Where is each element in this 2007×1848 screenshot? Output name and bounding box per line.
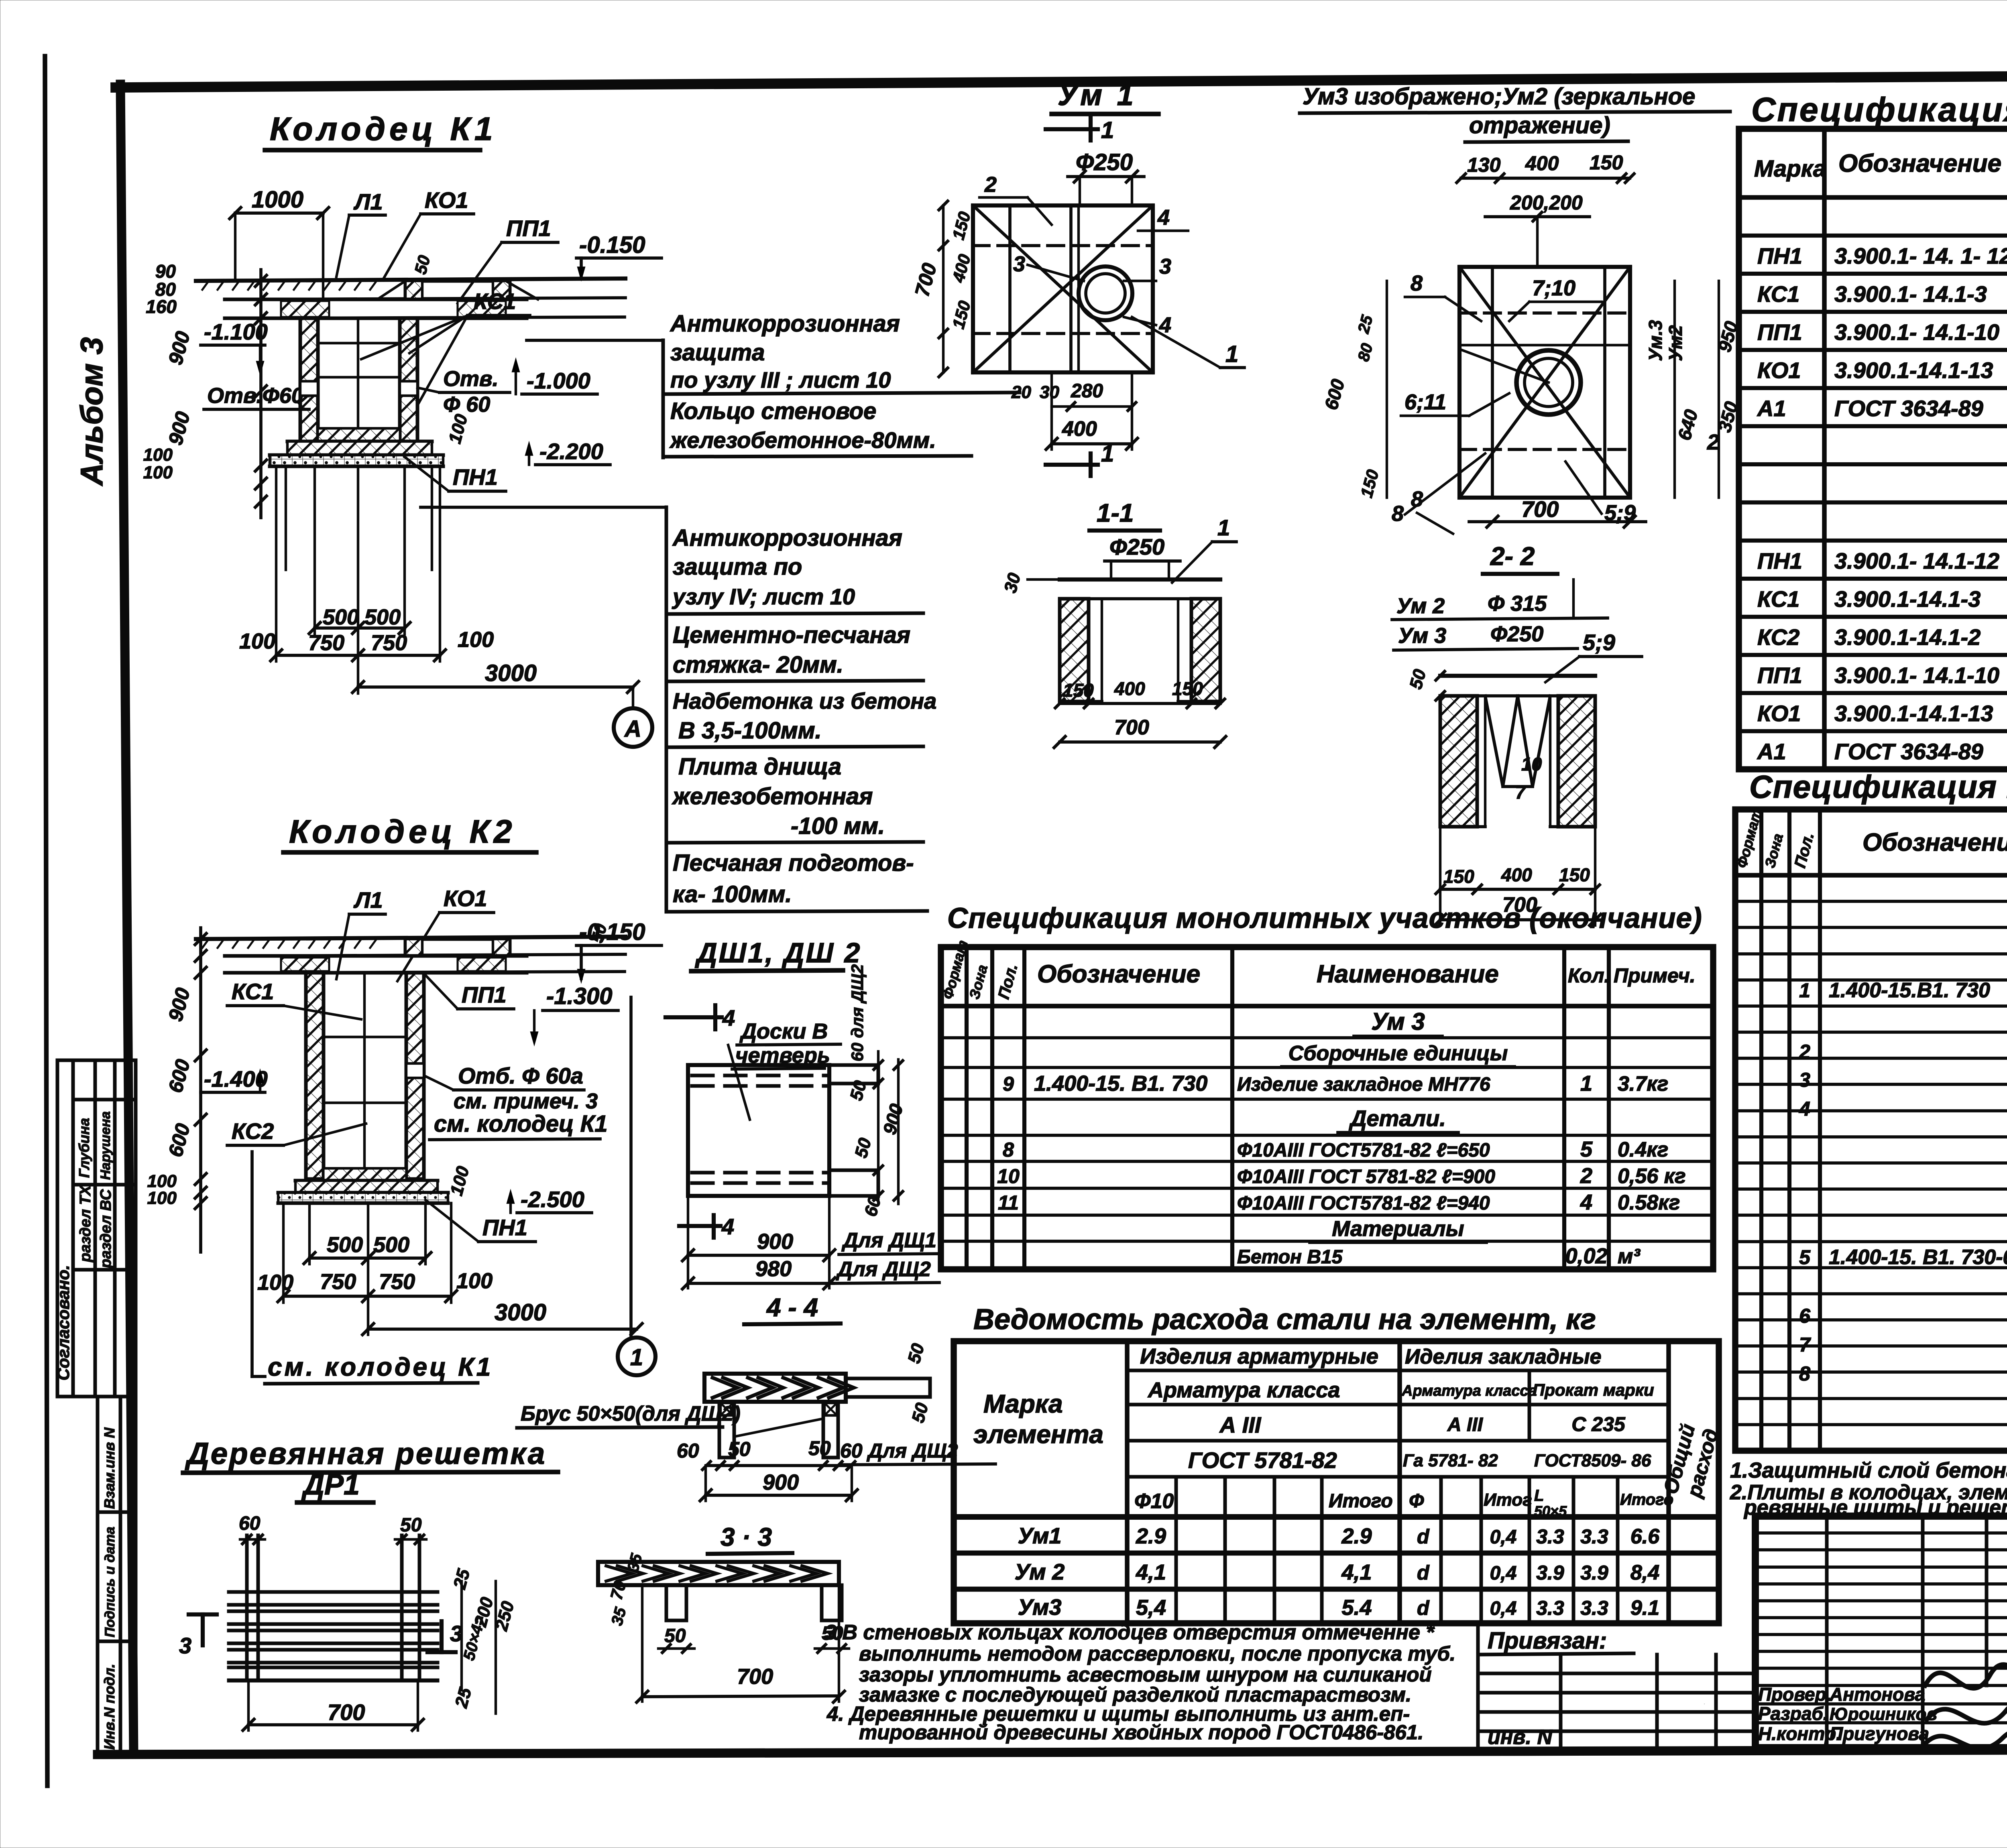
dim 1000 (K1 top) [230, 187, 329, 300]
svg-text:0,4: 0,4 [1490, 1598, 1517, 1619]
svg-text:Обозначение: Обозначение [1037, 960, 1200, 988]
svg-text:Брус 50×50(для ДЩ2): Брус 50×50(для ДЩ2) [521, 1402, 741, 1425]
callout КС1 (K2) [227, 979, 361, 1019]
svg-text:7: 7 [1799, 1334, 1811, 1356]
svg-text:9.1: 9.1 [1630, 1596, 1659, 1620]
svg-text:2.9: 2.9 [1136, 1524, 1166, 1548]
svg-text:Детали.: Детали. [1349, 1106, 1446, 1131]
node marker 1 (circle, K2) [618, 997, 655, 1375]
svg-text:1.400-15.В1. 730: 1.400-15.В1. 730 [1829, 979, 1990, 1002]
svg-text:узлу IV; лист 10: узлу IV; лист 10 [672, 584, 855, 609]
callout ПН1 (K1) [405, 457, 506, 491]
K2 bottom dims 500/500, 750/750, 100, 3000 [257, 1203, 642, 1335]
level -1.100 [201, 319, 268, 375]
svg-text:КС1: КС1 [1757, 281, 1799, 307]
svg-text:1: 1 [630, 1344, 643, 1370]
title 1-1 [1089, 498, 1160, 531]
title 4-4 [0, 0, 0, 0]
svg-text:0.58кг: 0.58кг [1618, 1191, 1680, 1214]
svg-text:11: 11 [998, 1191, 1019, 1214]
table A row А1 (К2) [1757, 739, 2007, 764]
svg-text:Колодец К2: Колодец К2 [289, 813, 516, 850]
svg-text:по узлу III ; лист 10: по узлу III ; лист 10 [670, 367, 891, 392]
svg-text:Обозначение: Обозначение [1838, 150, 2001, 177]
table A row ПП1 [1757, 319, 2007, 345]
svg-text:ГОСТ 3634-89: ГОСТ 3634-89 [1834, 739, 1983, 764]
table C header texts [939, 938, 1696, 1001]
K2 shaft walls [306, 973, 424, 1179]
svg-text:4,1: 4,1 [1341, 1560, 1372, 1584]
svg-text:100: 100 [257, 1271, 293, 1295]
svg-text:980: 980 [755, 1257, 792, 1281]
svg-text:стяжка- 20мм.: стяжка- 20мм. [673, 652, 843, 678]
section 2-2 dims [1435, 827, 1601, 925]
svg-text:3.900.1- 14.1-10: 3.900.1- 14.1-10 [1834, 319, 1999, 345]
callout ПП1 [458, 215, 558, 303]
привязан attachment table [1478, 1626, 1755, 1750]
svg-text:Наименование: Наименование [1317, 960, 1499, 988]
svg-text:7;10: 7;10 [1532, 276, 1575, 300]
svg-text:ГОСТ 5781-82: ГОСТ 5781-82 [1188, 1447, 1337, 1473]
svg-text:3.9: 3.9 [1580, 1561, 1608, 1584]
table D header texts [973, 1344, 1722, 1519]
plan Ум1 [973, 205, 1153, 372]
K2 chamber floor and bottom slab [278, 1169, 448, 1203]
section mark 1 (top) [1046, 117, 1114, 143]
svg-text:3000: 3000 [495, 1299, 546, 1326]
svg-text:100: 100 [143, 463, 173, 482]
plan Ум2/Ум3 labels [1392, 271, 1636, 526]
svg-text:3.3: 3.3 [1580, 1597, 1608, 1619]
leader line to notes box 2 [421, 506, 666, 509]
svg-text:А1: А1 [1757, 396, 1786, 421]
svg-text:2: 2 [984, 173, 997, 197]
svg-text:500: 500 [373, 1233, 409, 1257]
Ум1 bottom dims 20 30 280 400 [1011, 372, 1138, 449]
svg-text:ПН1: ПН1 [1757, 243, 1802, 268]
level mark -0.150 (K1) [576, 232, 662, 281]
callout Л1 [336, 189, 385, 277]
svg-text:железобетонное-80мм.: железобетонное-80мм. [669, 427, 936, 453]
svg-text:6.6: 6.6 [1630, 1525, 1660, 1548]
sheet outer left trim line [45, 56, 47, 1786]
svg-text:3.В стеновых кольцах колодцев: 3.В стеновых кольцах колодцев отверстия … [825, 1621, 1435, 1644]
svg-text:2: 2 [1799, 1041, 1810, 1063]
svg-text:4,1: 4,1 [1136, 1560, 1166, 1584]
svg-text:3: 3 [1013, 252, 1025, 276]
svg-text:КО1: КО1 [444, 886, 487, 911]
2-2 callouts Ум2 Ф315 / Ум3 Ф250 / 5;9 [1392, 579, 1642, 682]
notes box: антикоррозионная защита по узлу III [663, 311, 1020, 457]
svg-text:Плита днища: Плита днища [678, 754, 841, 780]
svg-text:Кол.: Кол. [1568, 964, 1610, 987]
level -1.400 (K2) [201, 1066, 268, 1092]
svg-text:Песчаная подготов-: Песчаная подготов- [673, 850, 914, 876]
svg-text:ДР1: ДР1 [301, 1469, 360, 1501]
svg-text:Деревянная решетка: Деревянная решетка [185, 1437, 546, 1471]
svg-text:ПП1: ПП1 [1757, 663, 1802, 688]
svg-text:Ведомость расхода стали на эл: Ведомость расхода стали на элемент, кг [973, 1303, 1596, 1336]
svg-text:Отб. Ф 60а: Отб. Ф 60а [458, 1063, 583, 1088]
svg-text:раздел ТХ: раздел ТХ [77, 1184, 94, 1262]
svg-text:500: 500 [323, 605, 359, 629]
table B row 1 [1799, 978, 2007, 1002]
title block left grid [1704, 1516, 2007, 1748]
callout КО1 (K2) [397, 886, 494, 981]
svg-text:100: 100 [143, 445, 173, 465]
svg-text:Арматура класса: Арматура класса [1147, 1378, 1340, 1402]
left stamp column (взам.инв/подпись/инв N) [98, 1397, 136, 1753]
svg-text:2: 2 [1707, 430, 1719, 454]
table спецификация монолитных участков (начало): grid [1735, 809, 2007, 1451]
text см.колодец К1 (bottom) [252, 1152, 493, 1384]
svg-text:Доски В: Доски В [739, 1019, 828, 1043]
svg-text:4 - 4: 4 - 4 [766, 1293, 818, 1322]
svg-text:10: 10 [1521, 754, 1542, 775]
svg-text:Нарушена: Нарушена [98, 1111, 113, 1180]
svg-text:5,4: 5,4 [1136, 1596, 1166, 1620]
svg-text:50×5: 50×5 [1534, 1503, 1567, 1519]
svg-text:3000: 3000 [485, 660, 537, 686]
svg-text:Надбетонка из бетона: Надбетонка из бетона [673, 688, 936, 714]
svg-text:Прокат марки: Прокат марки [1533, 1380, 1654, 1399]
level mark -0.150 (K2) [576, 919, 662, 983]
svg-text:Арматура класса: Арматура класса [1401, 1382, 1537, 1399]
svg-text:отражение): отражение) [1469, 112, 1610, 138]
section 4-4 beam (wood) [704, 1341, 932, 1458]
svg-text:Цементно-песчаная: Цементно-песчаная [673, 622, 910, 648]
callout ПП1 (K2) [425, 975, 514, 1009]
svg-text:Спецификация монолитных участ: Спецификация монолитных участков (начало… [1749, 769, 2007, 805]
table B row 5 [1799, 1245, 2007, 1269]
svg-text:1: 1 [1225, 341, 1238, 367]
label 3 - 3 [708, 1523, 792, 1554]
svg-text:Глубина: Глубина [76, 1118, 92, 1178]
title ДШ1, ДШ2 [691, 937, 861, 971]
table спецификация монолитных участков (окончание): grid [941, 947, 1713, 1269]
svg-text:КС1: КС1 [474, 289, 516, 314]
svg-text:Л1: Л1 [353, 189, 383, 214]
svg-text:60: 60 [677, 1439, 699, 1462]
title block frame [1755, 1516, 2007, 1748]
svg-text:В 3,5-100мм.: В 3,5-100мм. [678, 718, 822, 744]
table C row Бетон [1237, 1244, 1641, 1268]
svg-text:А III: А III [1447, 1414, 1484, 1435]
table A row КС1 [1757, 281, 2007, 307]
table A row КО1 [1757, 358, 2007, 383]
svg-text:750: 750 [379, 1270, 415, 1294]
table C row 9 [1003, 1071, 1668, 1096]
svg-text:Кольцо стеновое: Кольцо стеновое [670, 398, 876, 424]
text Брус 50х50 (для ДЩ2) [517, 1402, 741, 1428]
section mark 4 (top) [666, 1005, 735, 1031]
svg-text:Провер.: Провер. [1758, 1684, 1831, 1705]
callout КО1 [383, 187, 474, 279]
svg-text:Ф10АIII ГОСТ 5781-82 ℓ=900: Ф10АIII ГОСТ 5781-82 ℓ=900 [1237, 1166, 1495, 1187]
K2 cover slab [225, 956, 527, 973]
table C heading Ум 3 [1354, 1008, 1442, 1036]
svg-text:3.900.1-14.1-3: 3.900.1-14.1-3 [1834, 586, 1981, 612]
svg-text:-2.500: -2.500 [521, 1187, 584, 1212]
svg-text:50: 50 [808, 1437, 831, 1460]
svg-text:раздел ВС: раздел ВС [98, 1189, 114, 1269]
table A row КС1 (К2) [1757, 586, 2007, 612]
title Колодец К2 [283, 813, 536, 852]
callout Л1 (K2) [336, 887, 385, 979]
table A row ПН1 (К2) [1757, 548, 2007, 573]
svg-text:8: 8 [1392, 502, 1404, 526]
svg-text:500: 500 [327, 1233, 363, 1257]
table C heading Материалы [1310, 1217, 1486, 1242]
svg-text:Ф 315: Ф 315 [1488, 592, 1547, 616]
svg-text:ПН1: ПН1 [482, 1215, 527, 1240]
K1 ground lines [196, 279, 625, 318]
svg-text:6;11: 6;11 [1404, 390, 1446, 414]
svg-text:элемента: элемента [973, 1420, 1103, 1449]
section mark 4 (bottom) [679, 1214, 734, 1239]
svg-text:Ум 3: Ум 3 [1371, 1008, 1425, 1035]
svg-text:8: 8 [1003, 1138, 1014, 1161]
svg-text:Марка: Марка [983, 1389, 1063, 1418]
svg-text:Итого: Итого [1620, 1491, 1673, 1508]
svg-text:Бетон В15: Бетон В15 [1237, 1246, 1343, 1268]
dims 130 400 150 (top of mirrored plan) [1457, 151, 1634, 183]
svg-text:Альбом 3: Альбом 3 [74, 337, 109, 486]
svg-text:Га 5781- 82: Га 5781- 82 [1403, 1451, 1498, 1470]
K2 manhole ring [405, 939, 510, 956]
svg-text:КС2: КС2 [1757, 624, 1799, 650]
dim Ф250 (Ум1) [1068, 149, 1144, 205]
panel bottom dims 900/980 [682, 1196, 939, 1289]
table D row Ум2 [1015, 1559, 1660, 1584]
svg-text:м³: м³ [1618, 1245, 1641, 1268]
svg-text:ПП1: ПП1 [506, 215, 551, 241]
callout КС1 with leaders [361, 289, 530, 405]
dim Ф250 (1-1) [1105, 515, 1236, 583]
svg-text:А III: А III [1219, 1412, 1262, 1437]
section 3-3 beam [598, 1551, 849, 1702]
K1 manhole ring (люк) [377, 281, 538, 299]
svg-text:60: 60 [239, 1513, 261, 1534]
svg-text:Привязан:: Привязан: [1488, 1628, 1607, 1654]
svg-text:700: 700 [328, 1700, 365, 1725]
svg-text:150: 150 [1063, 680, 1094, 701]
plan Ум2/Ум3 side dims [1321, 281, 1742, 500]
svg-text:0,56 кг: 0,56 кг [1618, 1165, 1686, 1188]
svg-text:Взам.инв N: Взам.инв N [101, 1427, 118, 1509]
svg-text:ПН1: ПН1 [453, 464, 498, 490]
svg-text:3.900.1- 14.1-10: 3.900.1- 14.1-10 [1834, 663, 1999, 688]
svg-text:КС1: КС1 [1757, 586, 1799, 612]
svg-text:Изделия арматурные: Изделия арматурные [1140, 1344, 1378, 1368]
svg-text:280: 280 [1071, 380, 1103, 402]
table C row 11 [998, 1190, 1680, 1214]
svg-text:Итого: Итого [1329, 1490, 1393, 1512]
svg-text:ГОСТ8509- 86: ГОСТ8509- 86 [1534, 1451, 1651, 1470]
svg-text:4: 4 [1799, 1098, 1810, 1120]
table спецификация элементов колодцев: grid [1739, 129, 2007, 769]
notes 3,4 (bottom middle) [825, 1621, 1455, 1744]
svg-text:4: 4 [722, 1005, 735, 1031]
callout ПН1 (K2) [425, 1200, 535, 1242]
svg-text:КО1: КО1 [1757, 358, 1801, 383]
K1 chamber floor and bottom slab [270, 429, 443, 466]
svg-text:Ум.3: Ум.3 [1645, 320, 1666, 361]
section 1-1 dims [1054, 678, 1226, 748]
svg-text:Отв.: Отв. [443, 367, 499, 391]
svg-text:Ф 60: Ф 60 [443, 392, 490, 417]
svg-text:50: 50 [400, 1515, 422, 1536]
svg-text:150: 150 [1443, 866, 1474, 887]
svg-text:инв. N: инв. N [1488, 1726, 1553, 1749]
node marker А (circle) [614, 708, 652, 747]
plan Ум2/Ум3 (mirrored) [1459, 267, 1630, 498]
svg-text:Сборочные единицы: Сборочные единицы [1288, 1042, 1508, 1065]
title 2-2 [1483, 542, 1557, 574]
svg-text:3.3: 3.3 [1536, 1525, 1564, 1548]
table C heading Детали [1338, 1106, 1458, 1132]
svg-text:Ф10: Ф10 [1134, 1490, 1174, 1513]
table A row КС2 (К2) [1757, 624, 2007, 650]
svg-text:4: 4 [721, 1214, 734, 1239]
svg-text:Изделие закладное МН776: Изделие закладное МН776 [1237, 1074, 1490, 1095]
K1 cover slab [225, 299, 527, 318]
level -2.200 [445, 412, 610, 465]
svg-text:А1: А1 [1757, 739, 1786, 764]
svg-text:защита по: защита по [673, 554, 802, 580]
svg-text:400: 400 [1525, 152, 1559, 175]
svg-text:1000: 1000 [252, 187, 303, 213]
level -2.500 (K2) [446, 1164, 592, 1213]
svg-text:КС2: КС2 [232, 1118, 274, 1144]
table B row 7 [1799, 1332, 2007, 1356]
hole Отб Ф60а см.примеч.3 (K2) [406, 1063, 598, 1113]
svg-text:2- 2: 2- 2 [1490, 542, 1535, 571]
svg-text:см. колодец К1: см. колодец К1 [268, 1352, 493, 1381]
svg-text:3.3: 3.3 [1536, 1597, 1564, 1619]
svg-text:см. примеч. 3: см. примеч. 3 [454, 1089, 598, 1113]
notes 1-2 under table B [1730, 1458, 2007, 1519]
svg-text:100: 100 [147, 1188, 177, 1208]
svg-text:3.900.1-14.1-13: 3.900.1-14.1-13 [1834, 701, 1993, 726]
svg-text:160: 160 [146, 296, 177, 317]
svg-text:8: 8 [1411, 271, 1423, 295]
svg-text:выполнить нетодом рассверловки: выполнить нетодом рассверловки, после пр… [859, 1642, 1455, 1665]
section 2-2 body [1406, 667, 1595, 827]
svg-text:КО1: КО1 [1757, 701, 1801, 726]
table D row Ум1 [1018, 1523, 1660, 1548]
K1 bottom dimension lines 500/500, 750/750, 100, 3000 [239, 466, 639, 708]
svg-text:150: 150 [1590, 151, 1623, 174]
svg-text:1: 1 [1101, 441, 1114, 467]
svg-text:Спецификация монолитных участ: Спецификация монолитных участков (оконча… [947, 903, 1702, 934]
svg-text:1: 1 [1101, 117, 1114, 143]
svg-text:зазоры уплотнить асвестовым шн: зазоры уплотнить асвестовым шнуром на си… [859, 1663, 1432, 1686]
svg-text:0,4: 0,4 [1490, 1527, 1517, 1548]
svg-text:Ум 2: Ум 2 [1396, 594, 1445, 618]
svg-text:750: 750 [320, 1270, 356, 1294]
svg-text:Подпись и дата: Подпись и дата [102, 1527, 118, 1637]
svg-text:5: 5 [1799, 1246, 1811, 1269]
svg-text:700: 700 [737, 1665, 773, 1689]
svg-text:750: 750 [371, 631, 407, 655]
svg-text:400: 400 [1501, 864, 1532, 885]
svg-text:3: 3 [1799, 1069, 1810, 1091]
dims 200,200 [1485, 191, 1590, 267]
svg-text:900: 900 [757, 1230, 793, 1254]
svg-text:А: А [624, 716, 641, 742]
left stamp table (согласовано) [54, 1060, 136, 1397]
table B row 8 [1799, 1361, 2007, 1385]
panel ДШ1/ДШ2 plan [688, 1065, 878, 1196]
svg-text:0,4: 0,4 [1490, 1563, 1517, 1584]
svg-text:700: 700 [1114, 716, 1149, 739]
svg-text:1: 1 [1799, 979, 1810, 1002]
label 4 - 4 [744, 1293, 841, 1324]
svg-text:2.9: 2.9 [1341, 1524, 1372, 1548]
svg-text:9: 9 [1003, 1073, 1014, 1095]
svg-text:Для ДЩ2: Для ДЩ2 [836, 1258, 931, 1281]
svg-text:8: 8 [1411, 487, 1423, 511]
table C heading Сварочные единицы [1282, 1042, 1514, 1067]
svg-text:Обозначение: Обозначение [1862, 829, 2007, 856]
svg-text:5;9: 5;9 [1583, 630, 1615, 655]
svg-text:Иделия закладные: Иделия закладные [1405, 1345, 1602, 1368]
svg-text:60 Для ДЩ2: 60 Для ДЩ2 [840, 1439, 958, 1462]
svg-text:Ф: Ф [1409, 1490, 1424, 1512]
svg-text:Антикоррозионная: Антикоррозионная [670, 311, 900, 337]
svg-text:Ум 1: Ум 1 [1058, 78, 1137, 112]
svg-text:Марка: Марка [1754, 156, 1826, 182]
svg-text:Примеч.: Примеч. [1614, 964, 1696, 987]
svg-text:1.400-15. В1. 730-01: 1.400-15. В1. 730-01 [1829, 1246, 2007, 1269]
svg-text:3.900.1-14.1-13: 3.900.1-14.1-13 [1834, 358, 1993, 383]
svg-text:4: 4 [1157, 205, 1170, 230]
svg-text:3.900.1- 14.1-12: 3.900.1- 14.1-12 [1834, 548, 1999, 573]
svg-text:ДШ1, ДШ 2: ДШ1, ДШ 2 [695, 937, 861, 968]
svg-text:150: 150 [1559, 864, 1590, 885]
svg-text:-1.000: -1.000 [527, 368, 590, 393]
panel right rotated dims [846, 964, 907, 1219]
leader 8 (above 2-2) [1411, 487, 1453, 534]
svg-text:900: 900 [763, 1470, 799, 1494]
svg-text:1: 1 [1217, 515, 1230, 540]
svg-text:500: 500 [364, 605, 401, 629]
svg-text:3 · 3: 3 · 3 [721, 1523, 772, 1551]
svg-text:3.7кг: 3.7кг [1618, 1072, 1668, 1096]
svg-text:КО1: КО1 [425, 187, 468, 213]
svg-text:8,4: 8,4 [1630, 1561, 1659, 1584]
svg-text:Пригунова: Пригунова [1830, 1723, 1929, 1744]
svg-text:6: 6 [1799, 1305, 1811, 1327]
svg-text:60 для ДЩ2: 60 для ДЩ2 [848, 964, 867, 1061]
svg-text:ПН1: ПН1 [1757, 548, 1802, 573]
svg-text:-100 мм.: -100 мм. [791, 813, 885, 839]
svg-text:130: 130 [1467, 154, 1501, 176]
level -1.300 (K2) [530, 983, 618, 1046]
svg-text:0.4кг: 0.4кг [1618, 1138, 1668, 1161]
text см.колодец К1 (mid) [429, 1111, 608, 1140]
svg-text:100: 100 [239, 629, 275, 653]
svg-text:ПП1: ПП1 [1757, 319, 1802, 345]
svg-text:ка- 100мм.: ка- 100мм. [673, 881, 792, 907]
svg-text:Итог: Итог [1484, 1490, 1532, 1510]
leader line to notes box 1 [527, 339, 663, 342]
svg-text:2: 2 [1580, 1164, 1592, 1188]
title Деревянная решетка ДР1 [183, 1437, 558, 1502]
svg-text:L: L [1534, 1487, 1544, 1504]
svg-text:ГОСТ 3634-89: ГОСТ 3634-89 [1834, 396, 1983, 421]
